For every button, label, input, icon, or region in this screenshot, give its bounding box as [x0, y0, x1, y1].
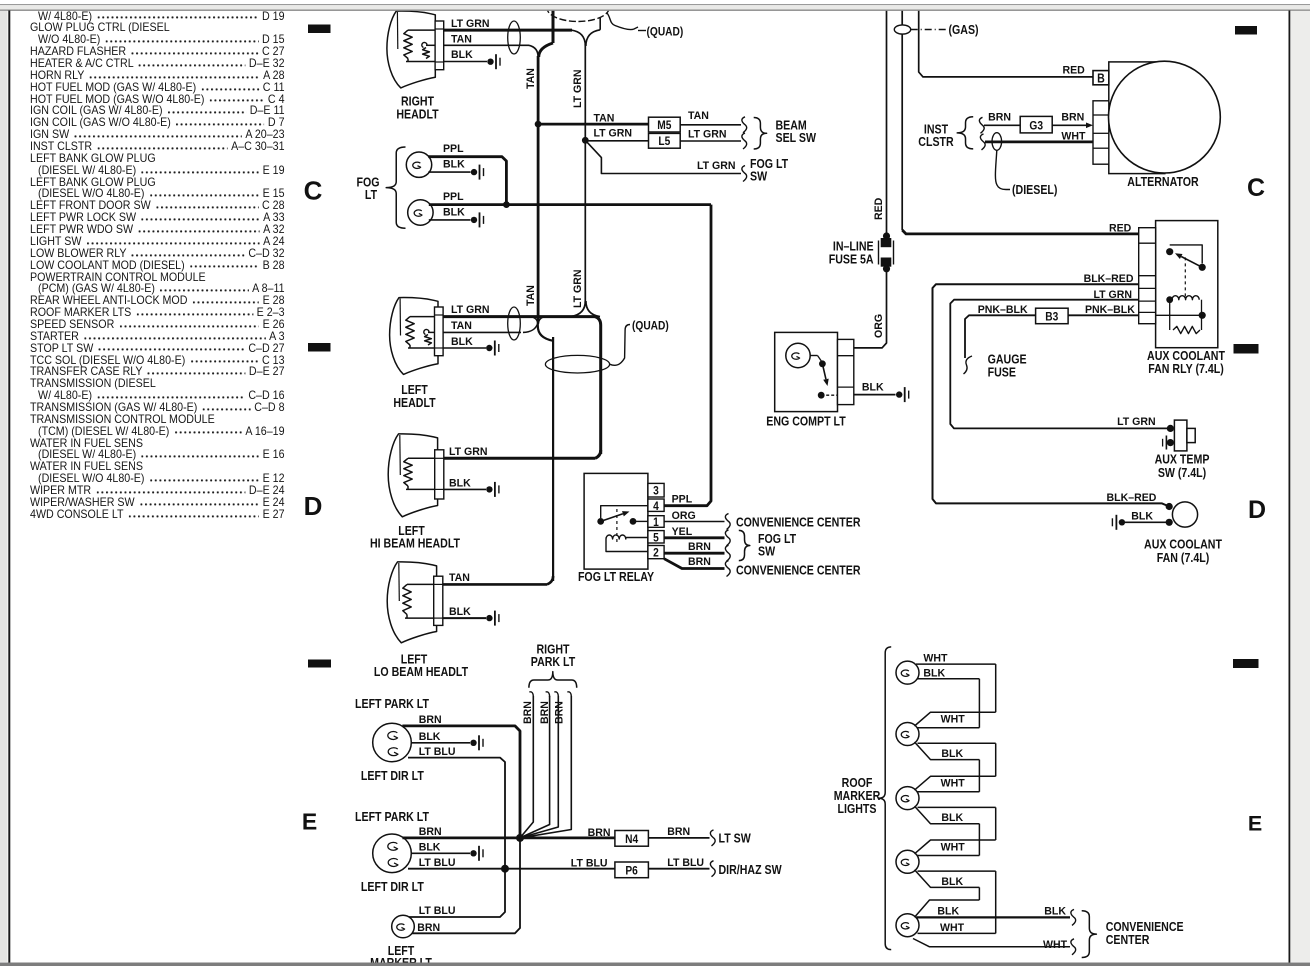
relay coil — [1166, 296, 1173, 303]
brace ROOF MARKER LIGHTS — [879, 647, 892, 950]
svg-text:BLK: BLK — [449, 477, 471, 489]
relay FOG LT RELAY box — [584, 473, 648, 569]
svg-text:TAN: TAN — [449, 572, 470, 584]
squiggle DIR/HAZ SW — [710, 861, 715, 877]
wire BRN right park 1 — [529, 692, 533, 697]
svg-text:BRN: BRN — [522, 701, 534, 724]
wire LT GRN row hi beam (heavy) — [444, 450, 601, 458]
svg-text:LT GRN: LT GRN — [1094, 289, 1133, 301]
connector ellipse on right headlt pair — [508, 21, 521, 54]
ground fog lower — [471, 217, 477, 223]
filament LEFT LO BEAM — [403, 584, 411, 614]
svg-text:LT BLU: LT BLU — [419, 857, 456, 869]
wire stub from ellipse to LT GRN funnel — [599, 18, 601, 30]
svg-text:CENTER: CENTER — [1106, 933, 1150, 947]
wire BLK lower fog — [429, 219, 471, 221]
relay pin 2 — [648, 546, 664, 559]
svg-text:4: 4 — [653, 500, 659, 513]
wire BLK roof 5 to convenience center (heavy) — [917, 916, 1071, 918]
ground aux fan — [1119, 519, 1125, 525]
relay internal switch — [1166, 248, 1173, 255]
squiggle INST BRN — [979, 117, 984, 133]
bulb roof marker 5 — [896, 914, 919, 937]
motor AUX COOLANT FAN — [1166, 503, 1173, 510]
svg-text:E: E — [1248, 812, 1262, 836]
wire LT GRN trunk mid — [584, 140, 586, 303]
wire LT BLU after P6 — [648, 868, 709, 870]
filament RIGHT HEADLT high — [404, 30, 412, 58]
svg-text:LT BLU: LT BLU — [571, 857, 608, 869]
wire PPL lower (heavy, to fog relay) — [429, 203, 711, 206]
component index list — [30, 11, 285, 521]
svg-text:LT GRN: LT GRN — [451, 304, 490, 316]
ground park lower — [470, 850, 476, 856]
ground park upper — [470, 740, 476, 746]
svg-text:BRN: BRN — [419, 826, 442, 838]
roof marker right rail segments — [995, 664, 997, 712]
filament RIGHT HEADLT low — [422, 42, 427, 47]
brace FOG LT SW relay side — [739, 530, 750, 560]
svg-text:BRN: BRN — [419, 714, 442, 726]
svg-text:TAN: TAN — [525, 68, 537, 89]
wire TAN trunk jog — [537, 317, 539, 326]
wire LT GRN row left headlt (heavy) — [443, 315, 596, 318]
funnel LT GRN trunk into row — [571, 301, 586, 317]
svg-text:(DIESEL): (DIESEL) — [1012, 183, 1058, 197]
wire BLK-RED from relay — [933, 284, 1170, 506]
wire BLK hi beam — [444, 488, 486, 490]
wire BLK inside lamp — [406, 61, 435, 63]
svg-text:BRN: BRN — [688, 556, 711, 568]
wire WHT roof 2 — [915, 712, 996, 726]
svg-text:MARKER: MARKER — [834, 789, 881, 803]
squiggle BLK cc — [1071, 909, 1076, 925]
svg-text:M5: M5 — [657, 119, 671, 132]
svg-text:WHT: WHT — [1043, 939, 1067, 951]
relay internal link dashed — [1184, 257, 1186, 297]
wire BLK roof 3 — [918, 806, 996, 808]
relay pin 4 — [648, 499, 664, 511]
page frame top band — [0, 0, 1310, 4]
wire RED to alternator B — [919, 11, 1093, 77]
relay internal switch — [601, 506, 648, 518]
svg-text:BRN: BRN — [553, 701, 565, 724]
svg-text:BRN: BRN — [539, 701, 551, 724]
svg-text:(GAS): (GAS) — [949, 23, 979, 37]
connector P6 — [615, 862, 649, 878]
wire BLK to ground — [854, 394, 896, 396]
svg-text:IN–LINE: IN–LINE — [833, 240, 874, 254]
wire LT GRN trunk upper — [584, 44, 586, 140]
tick mark left row D — [308, 343, 331, 352]
svg-text:BLK: BLK — [419, 841, 441, 853]
wires inside left headlt — [408, 347, 435, 349]
svg-text:LT BLU: LT BLU — [419, 905, 456, 917]
svg-text:BLK: BLK — [419, 731, 441, 743]
wire BLK upper park — [411, 742, 470, 744]
svg-text:BLK: BLK — [1131, 510, 1153, 522]
wire roof 5 top link — [915, 900, 980, 917]
wire LT BLU upper — [408, 758, 505, 865]
headlamp LEFT HI BEAM outline — [388, 434, 437, 517]
svg-text:BLK: BLK — [941, 748, 963, 760]
svg-text:HI BEAM HEADLT: HI BEAM HEADLT — [370, 537, 460, 551]
relay internal link (dashed) — [616, 509, 618, 545]
svg-text:CLSTR: CLSTR — [918, 135, 954, 149]
svg-text:LEFT PARK LT: LEFT PARK LT — [355, 810, 429, 824]
svg-text:BRN: BRN — [417, 922, 440, 934]
svg-text:LT BLU: LT BLU — [667, 857, 704, 869]
svg-text:BRN: BRN — [667, 826, 690, 838]
pigtail to (QUAD) upper — [607, 13, 638, 30]
svg-text:LEFT DIR LT: LEFT DIR LT — [361, 880, 424, 894]
svg-text:BLK–RED: BLK–RED — [1107, 492, 1157, 504]
wire TAN row join trunk — [523, 324, 538, 333]
wire WHT to alternator (heavy) — [985, 140, 1093, 143]
svg-text:N4: N4 — [625, 833, 639, 846]
ground left headlt — [486, 345, 492, 351]
svg-text:ROOF: ROOF — [842, 776, 873, 790]
connector B3 — [1036, 308, 1069, 324]
svg-text:B: B — [1097, 72, 1105, 86]
wire BLK roof 2 — [918, 742, 996, 744]
svg-text:HEADLT: HEADLT — [393, 396, 435, 410]
svg-text:PPL: PPL — [443, 191, 464, 203]
squiggle LT GRN beam sel — [742, 133, 747, 149]
headlamp LEFT LO BEAM outline — [387, 562, 436, 643]
filament LEFT HEADLT low — [424, 329, 429, 334]
bulb ENG COMPT LT — [786, 343, 810, 367]
svg-text:RED: RED — [1063, 64, 1085, 76]
harness ellipse lower — [545, 355, 609, 373]
svg-text:DIR/HAZ SW: DIR/HAZ SW — [719, 863, 782, 877]
squiggle INST WHT — [980, 134, 985, 150]
connector ellipse on left headlt pair — [508, 307, 521, 340]
squiggle ORG — [725, 514, 730, 530]
wire LT BLU lower — [408, 868, 615, 870]
wire BLK roof 4 — [918, 870, 996, 872]
wire GAS vertical — [901, 11, 903, 26]
tag line (GAS) — [911, 29, 946, 31]
squiggle BRN lower — [725, 561, 730, 577]
svg-text:LT GRN: LT GRN — [572, 269, 584, 308]
svg-text:LEFT DIR LT: LEFT DIR LT — [361, 769, 424, 783]
wire TAN to M5 (heavy) — [538, 123, 648, 126]
svg-text:ALTERNATOR: ALTERNATOR — [1127, 175, 1199, 189]
bulb roof marker 3 — [896, 787, 919, 810]
wire WHT roof 4 — [915, 840, 996, 854]
svg-text:WHT: WHT — [940, 922, 964, 934]
squiggle LT SW — [710, 830, 715, 846]
wire TAN row lo beam (heavy) — [443, 576, 553, 584]
lamp unit ENG COMPT LT box — [775, 332, 838, 411]
switch AUX TEMP SW — [1167, 425, 1174, 432]
bulb roof marker 1 — [896, 661, 919, 684]
wire LT GRN to fog lt sw — [585, 140, 741, 173]
svg-text:CONVENIENCE: CONVENIENCE — [1106, 920, 1184, 934]
svg-text:SW: SW — [750, 170, 767, 184]
wire BRN right park 3 — [554, 692, 558, 697]
connector N4 — [615, 831, 649, 847]
switch ENG COMPT LT — [810, 355, 817, 357]
svg-text:G3: G3 — [1029, 120, 1043, 133]
tick mark right row C — [1235, 26, 1257, 35]
svg-text:FAN RLY (7.4L): FAN RLY (7.4L) — [1148, 362, 1224, 376]
wire YEL (heavy) — [664, 536, 724, 539]
headlamp RIGHT HEADLT lens edge — [396, 12, 398, 49]
svg-text:BLK: BLK — [923, 667, 945, 679]
svg-text:SEL SW: SEL SW — [776, 131, 817, 145]
svg-text:LIGHTS: LIGHTS — [838, 802, 877, 816]
relay pin 1 — [648, 516, 664, 528]
wire WHT roof 3 — [915, 776, 996, 790]
wire LT GRN to L5 — [585, 140, 648, 142]
svg-text:LT GRN: LT GRN — [688, 128, 727, 140]
svg-text:WHT: WHT — [941, 777, 965, 789]
wire WHT roof 1 — [916, 663, 996, 665]
svg-text:LT GRN: LT GRN — [451, 18, 490, 30]
bulb roof marker 2 — [896, 723, 919, 746]
tick mark right row D — [1234, 344, 1259, 354]
relay pin 5 — [648, 531, 664, 543]
svg-text:BLK: BLK — [937, 905, 959, 917]
alternator circle — [1109, 61, 1221, 173]
svg-text:BLK: BLK — [941, 812, 963, 824]
brace BEAM SEL SW — [754, 118, 767, 150]
funnel TAN trunk through LT GRN row — [531, 317, 538, 324]
tick mark right row E — [1233, 659, 1259, 668]
svg-text:RED: RED — [1109, 222, 1131, 234]
svg-text:(QUAD): (QUAD) — [632, 320, 669, 333]
svg-text:1: 1 — [653, 516, 659, 529]
wire WHT roof 5 to convenience center — [913, 939, 1070, 947]
bulb roof marker 4 — [896, 850, 919, 873]
svg-text:RED: RED — [873, 198, 885, 220]
svg-text:BLK: BLK — [443, 206, 465, 218]
svg-text:L5: L5 — [658, 135, 670, 148]
wire BLK to ground — [444, 61, 487, 63]
svg-text:BLK: BLK — [451, 49, 473, 61]
wire ORG to convenience center — [664, 521, 724, 523]
svg-text:BLK: BLK — [1044, 905, 1066, 917]
svg-text:PPL: PPL — [443, 143, 464, 155]
wire funnel into LT GRN trunk — [571, 30, 585, 46]
svg-text:3: 3 — [653, 485, 659, 498]
ground hi beam — [486, 486, 492, 492]
svg-text:2: 2 — [653, 547, 659, 560]
svg-text:TAN: TAN — [451, 320, 472, 332]
headlamp LEFT LO BEAM connector — [434, 576, 443, 625]
page frame bottom band — [0, 963, 1310, 966]
squiggle YEL — [725, 530, 730, 546]
wire ORG below fuse — [854, 269, 887, 348]
svg-text:TAN: TAN — [525, 285, 537, 306]
headlamp LEFT HI BEAM connector — [435, 450, 444, 499]
junction dot BRN — [516, 834, 524, 842]
wire funnel into TAN trunk — [529, 45, 538, 57]
svg-text:AUX COOLANT: AUX COOLANT — [1144, 538, 1222, 552]
wire TAN trunk mid — [537, 124, 540, 322]
headlamp RIGHT HEADLT connector — [435, 21, 444, 70]
terminal B box — [1093, 71, 1109, 85]
wire BLK lower park — [411, 852, 470, 854]
wire PPL vertical to relay pin4 — [664, 205, 711, 506]
roof marker left rail segments — [978, 679, 980, 728]
wire BRN to G3 — [984, 124, 1020, 126]
connector ellipse (GAS) — [894, 25, 910, 34]
relay connector cells — [1139, 228, 1156, 324]
wire PPL upper (heavy) — [428, 157, 506, 205]
squiggle TAN beam sel — [742, 117, 747, 133]
wire BRN marker — [412, 838, 520, 933]
svg-text:TAN: TAN — [451, 33, 472, 45]
brace INST CLSTR — [957, 117, 973, 149]
fuse IN-LINE FUSE 5A — [883, 232, 890, 239]
svg-text:BRN: BRN — [1061, 111, 1084, 123]
wire BLK roof 1 — [917, 678, 979, 680]
svg-text:SW: SW — [758, 545, 775, 559]
svg-text:PNK–BLK: PNK–BLK — [1085, 303, 1135, 315]
squiggle fog lt sw — [742, 166, 747, 182]
svg-text:LT GRN: LT GRN — [572, 69, 584, 108]
connector ellipse (DIESEL) — [992, 133, 1002, 151]
wire BRN pin2 (heavy) — [664, 552, 724, 555]
brace CONVENIENCE CENTER — [1082, 911, 1097, 958]
svg-text:BLK: BLK — [443, 158, 465, 170]
svg-text:WHT: WHT — [941, 841, 965, 853]
ground eng compt lt — [896, 391, 902, 397]
ENG COMPT LT connector cells — [838, 339, 854, 404]
svg-text:D: D — [1248, 496, 1266, 524]
wire BLK lo beam — [443, 617, 486, 619]
svg-text:5: 5 — [653, 532, 659, 545]
wire PNK-BLK through B3 — [1156, 314, 1203, 316]
svg-text:RIGHT: RIGHT — [401, 95, 434, 109]
svg-text:(QUAD): (QUAD) — [647, 26, 684, 39]
pigtail to (QUAD) lower — [610, 330, 626, 365]
svg-text:WHT: WHT — [923, 652, 947, 664]
svg-text:BLK: BLK — [941, 876, 963, 888]
svg-text:ORG: ORG — [672, 510, 696, 522]
filament LEFT HI BEAM — [404, 458, 412, 486]
brace RIGHT PARK LT — [529, 672, 577, 688]
junction dot PPL — [503, 201, 510, 208]
svg-text:FAN (7.4L): FAN (7.4L) — [1157, 551, 1210, 565]
junction dot TAN trunk — [535, 121, 542, 128]
relay pin 3 — [648, 483, 664, 497]
svg-text:CONVENIENCE CENTER: CONVENIENCE CENTER — [736, 516, 861, 530]
svg-text:P6: P6 — [625, 865, 637, 878]
svg-text:TAN: TAN — [688, 109, 709, 121]
svg-text:AUX TEMP: AUX TEMP — [1155, 453, 1210, 467]
bulb FOG LT upper — [406, 152, 431, 177]
svg-text:C: C — [304, 176, 323, 206]
svg-text:BRN: BRN — [988, 111, 1011, 123]
svg-text:PPL: PPL — [672, 493, 693, 505]
svg-text:LT GRN: LT GRN — [1117, 415, 1156, 427]
svg-text:ORG: ORG — [873, 314, 885, 338]
bulb LEFT PARK LT lower — [373, 834, 412, 873]
svg-text:D: D — [304, 491, 323, 521]
svg-text:WHT: WHT — [1061, 130, 1085, 142]
svg-text:LT GRN: LT GRN — [697, 160, 736, 172]
svg-text:BLK: BLK — [451, 336, 473, 348]
wire BRN after N4 — [648, 837, 709, 839]
svg-text:BLK: BLK — [862, 381, 884, 393]
svg-text:B3: B3 — [1045, 311, 1058, 324]
bulb LEFT PARK LT upper — [373, 723, 412, 762]
wire BRN upper (heavy) — [402, 726, 520, 834]
relay resistor — [1169, 300, 1171, 330]
wire RED to relay (heavy) — [902, 230, 1138, 234]
headlamp LEFT HEADLT lens edge — [399, 299, 401, 336]
svg-text:YEL: YEL — [672, 526, 693, 538]
headlamp LEFT HEADLT connector — [435, 307, 444, 356]
svg-text:LT GRN: LT GRN — [449, 446, 488, 458]
wire BRN right park 4 — [567, 692, 571, 697]
wire RIGHT HEADLT LT GRN row (heavy) — [405, 29, 572, 32]
wire TAN trunk upper — [537, 56, 540, 124]
alternator connector cells — [1093, 101, 1109, 164]
relay coil — [606, 535, 626, 539]
svg-text:LO BEAM HEADLT: LO BEAM HEADLT — [374, 665, 468, 679]
pigtail to (DIESEL) — [995, 150, 1010, 189]
svg-text:BRN: BRN — [688, 541, 711, 553]
wire BRN G3 to alternator (arrow) — [1052, 124, 1086, 126]
page frame left strip — [0, 11, 8, 962]
tick mark left row C — [308, 25, 331, 34]
junction dot LT GRN trunk — [582, 137, 589, 144]
wire TAN row left headlt — [443, 331, 521, 333]
connector M5 — [649, 117, 681, 132]
wire RIGHT HEADLT TAN row — [426, 44, 529, 46]
svg-text:TAN: TAN — [594, 112, 615, 124]
svg-text:LEFT: LEFT — [401, 383, 428, 397]
headlamp RIGHT HEADLT outline — [387, 11, 435, 88]
svg-text:PNK–BLK: PNK–BLK — [978, 303, 1028, 315]
svg-text:FUSE 5A: FUSE 5A — [829, 253, 874, 267]
svg-text:FOG LT RELAY: FOG LT RELAY — [578, 570, 654, 584]
wire LT GRN out of L5 — [680, 140, 741, 142]
svg-text:PARK LT: PARK LT — [531, 655, 575, 669]
bulb LEFT MARKER LT — [392, 915, 415, 938]
wire BRN diagonal to convenience center (heavy) — [664, 559, 724, 569]
ground right headlt — [487, 59, 493, 65]
svg-text:LT SW: LT SW — [719, 832, 751, 846]
svg-text:BLK–RED: BLK–RED — [1084, 272, 1134, 284]
headlamp LEFT HEADLT outline — [390, 298, 438, 375]
wire BLK to ground — [1125, 521, 1172, 523]
wire LT GRN from relay — [950, 300, 1167, 429]
wire roof 5 right link — [918, 932, 996, 934]
svg-text:BRN: BRN — [588, 827, 611, 839]
wire LT BLU marker — [409, 869, 505, 917]
alternator frame rect — [1109, 62, 1165, 174]
ground aux temp sw — [1165, 436, 1167, 450]
ground lo beam — [486, 615, 492, 621]
squiggle BRN — [725, 545, 730, 561]
svg-text:ENG COMPT LT: ENG COMPT LT — [766, 415, 845, 429]
svg-text:LT GRN: LT GRN — [594, 127, 633, 139]
connector ellipse top (dashed) — [547, 0, 609, 22]
ground fog upper — [471, 169, 477, 175]
wire RED vertical to fuse — [886, 11, 888, 234]
wire BLK to ground — [443, 347, 486, 349]
junction dot LT BLU — [501, 865, 509, 873]
wire LT GRN row corner down — [595, 317, 601, 454]
bulb FOG LT lower — [408, 200, 433, 225]
tick mark left row E — [308, 660, 331, 668]
